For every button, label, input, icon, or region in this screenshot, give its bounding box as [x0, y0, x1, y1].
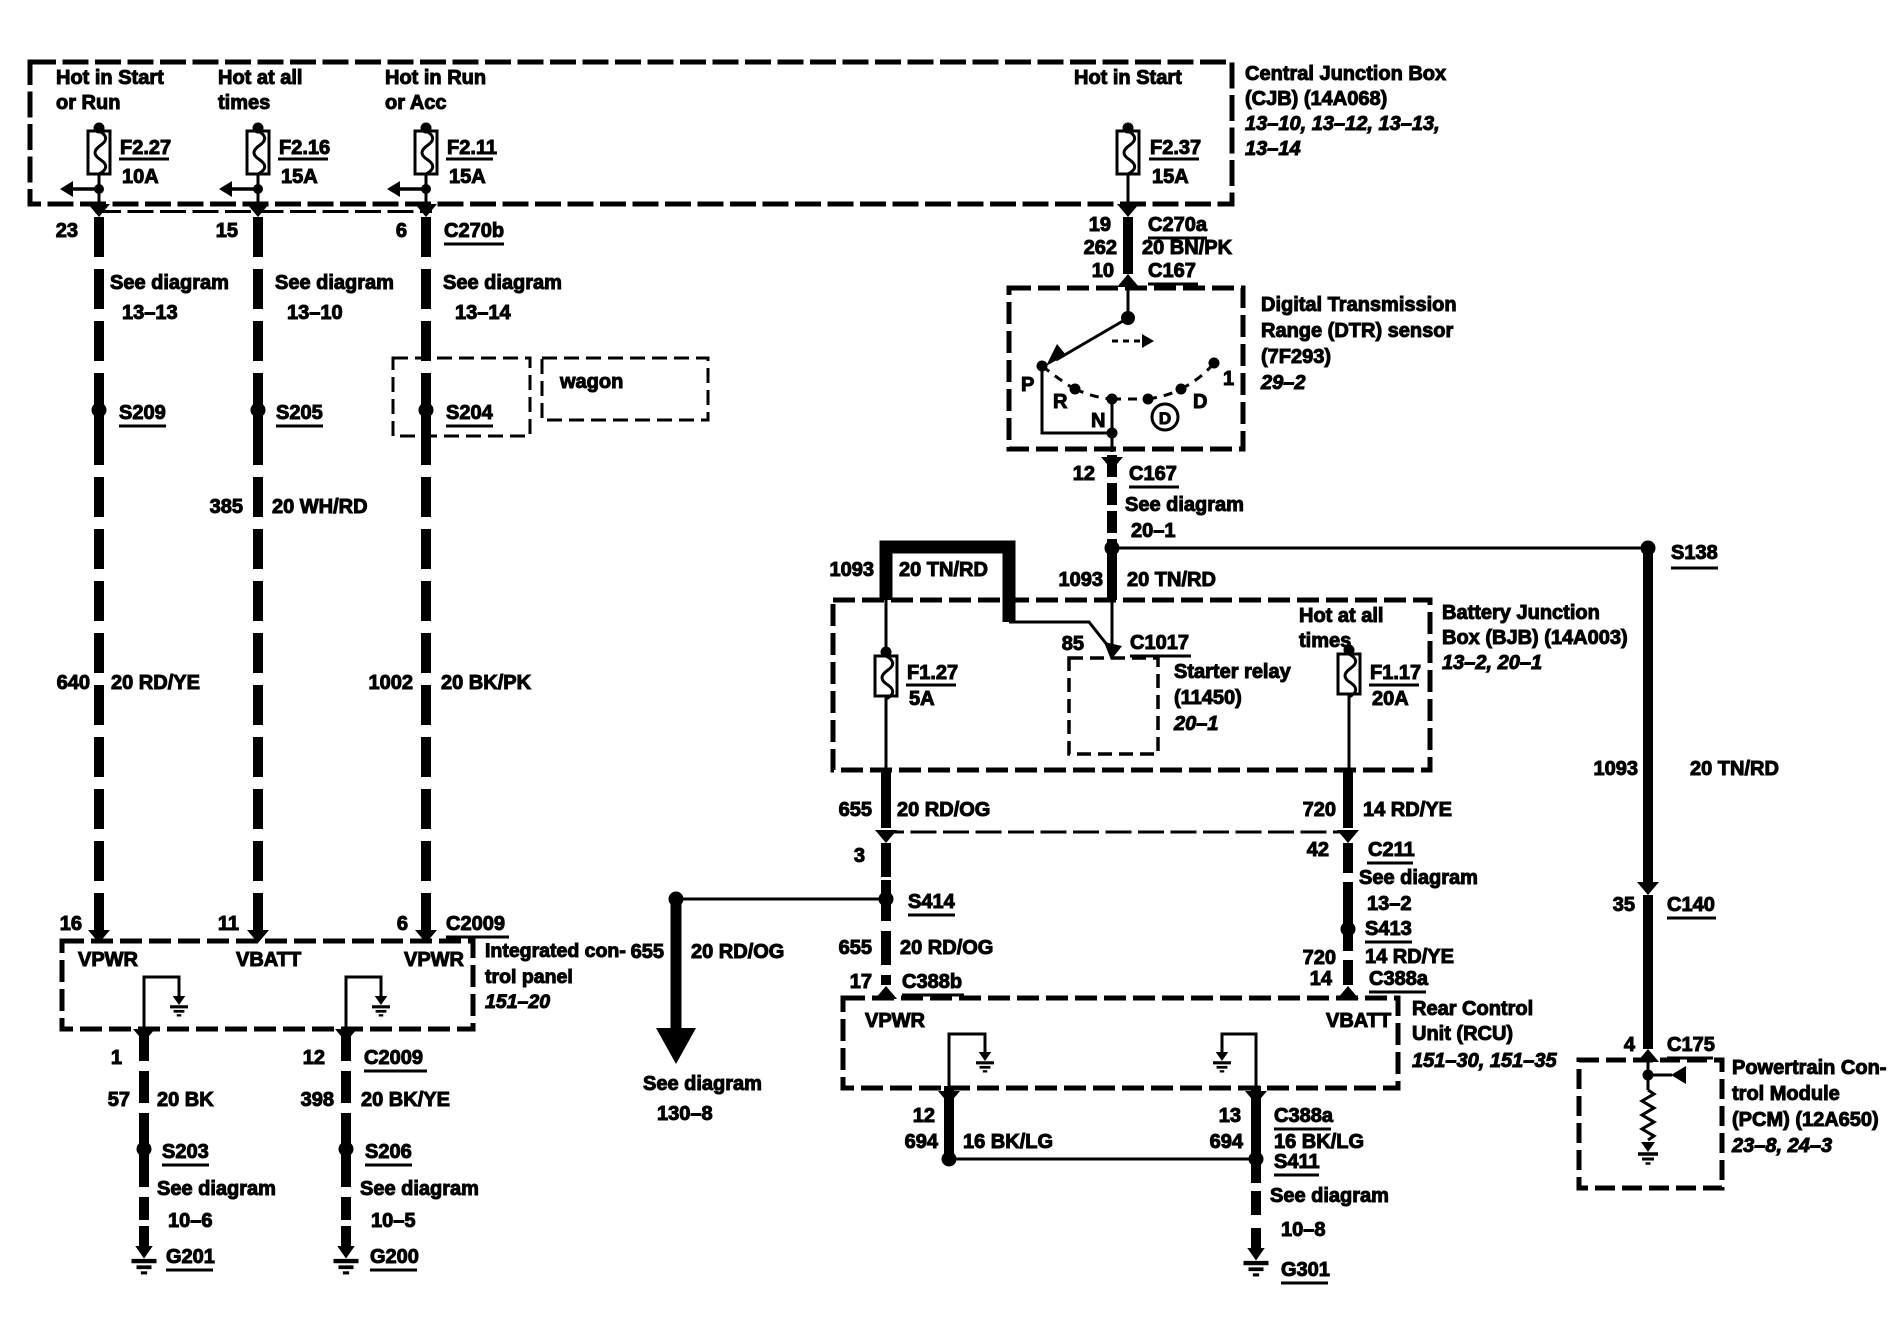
svg-text:694: 694	[905, 1131, 939, 1153]
svg-text:13–13: 13–13	[122, 302, 178, 324]
wire 655 below C211	[881, 843, 891, 985]
svg-text:15A: 15A	[281, 166, 318, 188]
svg-text:1: 1	[1223, 368, 1234, 390]
svg-text:1093: 1093	[1594, 758, 1639, 780]
svg-text:Hot at all: Hot at all	[1299, 605, 1383, 627]
svg-text:times: times	[218, 92, 270, 114]
see diagram 13-10 note	[275, 272, 394, 324]
wire label 655 20 RD/OG	[839, 799, 991, 821]
DTR name label	[1260, 294, 1457, 394]
see diagram 130-8 note	[643, 1073, 762, 1125]
see diagram 10-6 note	[157, 1178, 276, 1232]
connector C140 pin 35	[1613, 882, 1716, 918]
svg-text:20 BK: 20 BK	[157, 1089, 214, 1111]
svg-text:Rear Control: Rear Control	[1412, 998, 1533, 1020]
svg-text:13–10, 13–12, 13–13,: 13–10, 13–12, 13–13,	[1245, 113, 1440, 135]
svg-text:151–30, 151–35: 151–30, 151–35	[1412, 1050, 1557, 1072]
N output wire	[1107, 399, 1118, 452]
pin 15	[216, 220, 238, 242]
svg-text:N: N	[1091, 410, 1105, 432]
wire 694 16 BK/LG (left)	[944, 1086, 954, 1159]
BJB name label	[1442, 602, 1628, 674]
svg-text:(CJB) (14A068): (CJB) (14A068)	[1245, 88, 1387, 110]
svg-text:G200: G200	[370, 1246, 419, 1268]
svg-text:4: 4	[1624, 1034, 1636, 1056]
wire to G301	[1251, 1159, 1261, 1249]
circled D indicator	[1152, 404, 1178, 430]
pin 42 / connector C211	[1307, 830, 1415, 863]
svg-text:20–1: 20–1	[1131, 520, 1176, 542]
pin row above ICP	[60, 913, 408, 935]
svg-text:20 RD/OG: 20 RD/OG	[900, 937, 993, 959]
svg-text:15: 15	[216, 220, 238, 242]
wire label 398 20 BK/YE	[301, 1089, 450, 1111]
wagon dashed box	[542, 358, 708, 420]
pin 6	[396, 220, 407, 242]
label: Hot in Start or Run	[56, 67, 164, 114]
svg-text:Integrated con-: Integrated con-	[485, 940, 626, 962]
wire 694 16 BK/LG (right)	[1251, 1086, 1261, 1159]
svg-text:13–2: 13–2	[1367, 893, 1412, 915]
connector C388a pin 14	[1310, 968, 1429, 999]
svg-text:13: 13	[1219, 1105, 1241, 1127]
PCM internal resistance to ground	[1642, 1090, 1654, 1140]
P to N jumper wire	[1042, 366, 1112, 433]
svg-text:Box (BJB) (14A003): Box (BJB) (14A003)	[1442, 627, 1628, 649]
svg-text:13–2, 20–1: 13–2, 20–1	[1442, 652, 1542, 674]
svg-text:VPWR: VPWR	[78, 949, 139, 971]
svg-text:3: 3	[854, 845, 865, 867]
wire label 655 20 RD/OG (branch)	[631, 941, 785, 963]
svg-text:S413: S413	[1365, 918, 1412, 940]
svg-text:13–10: 13–10	[287, 302, 343, 324]
connector C167 pin 10	[1092, 260, 1198, 284]
wire continues to C175	[1643, 895, 1653, 1049]
svg-text:C388a: C388a	[1369, 968, 1429, 990]
connector C270b label	[444, 220, 504, 244]
see diagram 20-1 note	[1125, 494, 1244, 542]
svg-text:Hot in Start: Hot in Start	[56, 67, 164, 89]
wire circuit 640 20 RD/YE (F2.27 output)	[94, 217, 104, 940]
svg-text:Starter relay: Starter relay	[1174, 661, 1292, 683]
svg-text:10–6: 10–6	[168, 1210, 213, 1232]
svg-text:C167: C167	[1129, 463, 1177, 485]
svg-text:20 BK/YE: 20 BK/YE	[361, 1089, 450, 1111]
pin 3	[854, 845, 865, 867]
splice S138	[1641, 541, 1719, 569]
svg-text:G201: G201	[166, 1246, 215, 1268]
svg-text:13–14: 13–14	[1245, 138, 1301, 160]
svg-text:20 BK/PK: 20 BK/PK	[441, 672, 532, 694]
splice S203	[137, 1132, 210, 1168]
svg-text:655: 655	[839, 937, 872, 959]
svg-text:times: times	[1299, 630, 1351, 652]
svg-text:C388a: C388a	[1274, 1105, 1334, 1127]
PCM name label	[1731, 1057, 1886, 1157]
svg-text:29–2: 29–2	[1260, 372, 1306, 394]
svg-text:6: 6	[397, 913, 408, 935]
fuse F2.16 15A	[219, 123, 330, 205]
svg-text:20A: 20A	[1372, 688, 1409, 710]
svg-text:VBATT: VBATT	[236, 949, 301, 971]
svg-text:C211: C211	[1368, 839, 1415, 861]
svg-text:Unit (RCU): Unit (RCU)	[1412, 1023, 1513, 1045]
svg-text:20 RD/OG: 20 RD/OG	[897, 799, 990, 821]
fuse F2.37 15A	[1117, 123, 1201, 205]
svg-text:C2009: C2009	[364, 1047, 423, 1069]
see diagram 13-14 note	[443, 272, 562, 324]
ground G200	[334, 1246, 419, 1273]
Powertrain Control Module dashed box	[1579, 1060, 1722, 1188]
node to S414 horizontal wire	[669, 892, 887, 907]
wire label 640 20 RD/YE	[57, 672, 200, 694]
starter relay label	[1173, 661, 1292, 735]
connector C270b line	[95, 210, 432, 213]
label: Hot at all times	[218, 67, 302, 114]
connector C2009 label (top)	[446, 913, 509, 937]
svg-text:See diagram: See diagram	[275, 272, 394, 294]
svg-text:Hot in Start: Hot in Start	[1074, 67, 1182, 89]
svg-text:S411: S411	[1274, 1151, 1320, 1173]
DTR wiper arm	[1046, 318, 1128, 366]
svg-text:S204: S204	[446, 402, 494, 424]
svg-text:C270a: C270a	[1148, 214, 1208, 236]
DTR input node	[1121, 311, 1135, 325]
svg-text:262: 262	[1084, 237, 1117, 259]
svg-text:23: 23	[56, 220, 78, 242]
wire branch 655 20 RD/OG to A	[671, 899, 682, 1028]
VPWR pin (right)	[404, 949, 465, 971]
svg-text:20 TN/RD: 20 TN/RD	[1690, 758, 1779, 780]
DTR rotation direction arrow	[1112, 334, 1154, 348]
svg-text:S414: S414	[908, 891, 956, 913]
svg-text:1093: 1093	[1059, 569, 1104, 591]
svg-text:720: 720	[1303, 799, 1336, 821]
svg-text:16 BK/LG: 16 BK/LG	[963, 1131, 1053, 1153]
wire label 1002 20 BK/PK	[369, 672, 532, 694]
wire 720 below C211	[1343, 843, 1353, 985]
svg-text:1: 1	[111, 1047, 122, 1069]
svg-text:trol panel: trol panel	[485, 966, 573, 988]
svg-text:S203: S203	[162, 1141, 209, 1163]
svg-text:See diagram: See diagram	[1359, 867, 1478, 889]
svg-text:14: 14	[1310, 968, 1333, 990]
see diagram 13-2 note	[1359, 867, 1478, 915]
splice S205	[251, 392, 324, 430]
wire circuit 398 20 BK/YE	[341, 1029, 351, 1247]
svg-text:See diagram: See diagram	[1270, 1185, 1389, 1207]
see diagram 10-5 note	[360, 1178, 479, 1232]
ground G201	[132, 1246, 215, 1273]
svg-text:See diagram: See diagram	[360, 1178, 479, 1200]
svg-text:See diagram: See diagram	[110, 272, 229, 294]
svg-text:5A: 5A	[909, 688, 935, 710]
svg-text:F2.37: F2.37	[1150, 137, 1201, 159]
connector C1017 pin 85 arrow	[1062, 632, 1191, 660]
terminal arc (P R N D 1 contacts)	[1042, 358, 1220, 405]
svg-text:D: D	[1193, 391, 1207, 413]
svg-text:20 TN/RD: 20 TN/RD	[1127, 569, 1216, 591]
splice S206	[339, 1132, 413, 1168]
svg-text:VBATT: VBATT	[1326, 1010, 1391, 1032]
see diagram 10-8 note	[1270, 1185, 1389, 1241]
svg-text:C140: C140	[1667, 894, 1715, 916]
pin 23	[56, 220, 78, 242]
svg-text:23–8, 24–3: 23–8, 24–3	[1731, 1135, 1832, 1157]
svg-text:130–8: 130–8	[657, 1103, 713, 1125]
terminal N label	[1091, 410, 1105, 432]
svg-text:11: 11	[218, 913, 239, 935]
wire circuit 1002 20 BK/PK (F2.11 output)	[421, 217, 431, 940]
terminal D label	[1193, 391, 1207, 413]
splice S204 dashed box	[393, 358, 530, 436]
Rear Control Unit dashed box	[843, 998, 1398, 1088]
wire 1093 continues into BJB	[1107, 548, 1117, 600]
wire label 1093 20 TN/RD (center)	[1059, 569, 1216, 591]
wire label 1093 20 TN/RD (right)	[1594, 758, 1779, 780]
svg-text:See diagram: See diagram	[443, 272, 562, 294]
svg-text:Hot at all: Hot at all	[218, 67, 302, 89]
pins 1 / 12 and C2009 below ICP	[111, 1047, 325, 1069]
connector pin arrows under CJB	[88, 204, 1139, 217]
pins 12 / 13 and C388a below RCU	[938, 1091, 1267, 1104]
svg-text:F1.17: F1.17	[1370, 662, 1421, 684]
svg-text:Range (DTR) sensor: Range (DTR) sensor	[1261, 320, 1453, 342]
svg-text:20 RD/YE: 20 RD/YE	[111, 672, 200, 694]
Digital Transmission Range sensor dashed box	[1009, 288, 1243, 449]
wire circuit 57 20 BK	[139, 1029, 149, 1247]
svg-text:655: 655	[839, 799, 872, 821]
svg-text:C167: C167	[1148, 260, 1196, 282]
Integrated control panel dashed box	[62, 941, 473, 1029]
svg-text:Digital Transmission: Digital Transmission	[1261, 294, 1457, 316]
splice S414	[879, 880, 956, 920]
svg-text:85: 85	[1062, 633, 1084, 655]
svg-text:C2009: C2009	[446, 913, 505, 935]
splice node to S138	[1105, 541, 1649, 556]
svg-text:17: 17	[850, 971, 872, 993]
label: Hot at all times (BJB)	[1299, 605, 1383, 652]
ICP internal ground (right)	[346, 977, 390, 1029]
VBATT pin (RCU)	[1326, 1010, 1391, 1032]
wire label 385 20 WH/RD	[210, 496, 368, 518]
label: Hot in Run or Acc	[385, 67, 486, 114]
wire 655 20 RD/OG	[881, 770, 891, 828]
splice S204	[419, 392, 494, 430]
fuse F1.17 20A	[1338, 645, 1421, 771]
ground G301	[1244, 1248, 1330, 1283]
svg-text:S206: S206	[365, 1141, 412, 1163]
svg-text:G301: G301	[1281, 1259, 1330, 1281]
wire label 57 20 BK	[108, 1089, 214, 1111]
ICP internal ground (left)	[144, 977, 188, 1029]
wire label 694 16 BK/LG (left)	[905, 1131, 1053, 1153]
off-page arrow A	[656, 1028, 696, 1064]
VBATT pin	[236, 949, 301, 971]
RCU internal ground (right)	[1213, 1034, 1256, 1086]
starter relay dashed box	[1069, 658, 1158, 754]
svg-text:trol Module: trol Module	[1732, 1083, 1840, 1105]
svg-text:10A: 10A	[122, 166, 159, 188]
fuse F2.27 10A	[60, 123, 171, 205]
svg-text:20 RD/OG: 20 RD/OG	[691, 941, 784, 963]
connector C167 pin 12	[1073, 457, 1179, 487]
svg-text:See diagram: See diagram	[157, 1178, 276, 1200]
svg-text:12: 12	[1073, 463, 1095, 485]
svg-text:6: 6	[396, 220, 407, 242]
svg-text:Hot in Run: Hot in Run	[385, 67, 486, 89]
RCU internal ground (left)	[949, 1034, 994, 1086]
wire label 694 16 BK/LG (right)	[1210, 1131, 1364, 1153]
svg-text:20 BN/PK: 20 BN/PK	[1142, 237, 1233, 259]
connector arrows into ICP	[88, 930, 437, 943]
svg-text:12: 12	[303, 1047, 325, 1069]
svg-text:R: R	[1053, 391, 1068, 413]
svg-text:13–14: 13–14	[455, 302, 511, 324]
svg-text:A: A	[669, 1032, 683, 1053]
wire 720 14 RD/YE	[1343, 770, 1353, 828]
VPWR pin	[78, 949, 139, 971]
svg-text:(11450): (11450)	[1174, 687, 1242, 709]
svg-text:C175: C175	[1667, 1034, 1715, 1056]
wire label 655 20 RD/OG (2)	[839, 937, 994, 959]
svg-text:VPWR: VPWR	[404, 949, 465, 971]
wire from 1093 node to relay	[1111, 600, 1114, 650]
svg-text:or Acc: or Acc	[385, 92, 447, 114]
terminal P	[1021, 361, 1048, 397]
svg-text:19: 19	[1089, 214, 1111, 236]
svg-text:(7F293): (7F293)	[1261, 346, 1331, 368]
svg-text:C388b: C388b	[902, 971, 962, 993]
svg-text:VPWR: VPWR	[865, 1010, 926, 1032]
fuse F1.27 5A	[875, 600, 958, 770]
connector C175 pin 4	[1624, 1034, 1715, 1062]
ICP name label	[485, 940, 626, 1013]
svg-text:F2.11: F2.11	[447, 137, 497, 159]
svg-text:720: 720	[1303, 947, 1336, 969]
svg-text:Powertrain Con-: Powertrain Con-	[1732, 1057, 1886, 1079]
svg-text:20 WH/RD: 20 WH/RD	[272, 496, 368, 518]
wire circuit 385 20 WH/RD (F2.16 output)	[253, 217, 263, 940]
VPWR pin (RCU)	[865, 1010, 926, 1032]
svg-text:16 BK/LG: 16 BK/LG	[1274, 1131, 1364, 1153]
svg-text:10–5: 10–5	[371, 1210, 416, 1232]
wire label 1093 20 TN/RD (left)	[830, 559, 988, 581]
svg-text:12: 12	[913, 1105, 935, 1127]
connector C211 line	[875, 830, 1350, 843]
wire 1093 20 TN/RD to PCM	[1643, 548, 1653, 884]
svg-text:P: P	[1021, 374, 1034, 396]
svg-text:See diagram: See diagram	[1125, 494, 1244, 516]
wire label 720 14 RD/YE (2)	[1303, 946, 1454, 969]
svg-text:14 RD/YE: 14 RD/YE	[1363, 799, 1452, 821]
wire label 262 20 BN/PK	[1084, 237, 1233, 259]
svg-text:(PCM) (12A650): (PCM) (12A650)	[1732, 1109, 1879, 1131]
see diagram 13-13 note	[110, 272, 229, 324]
splice S209	[92, 392, 167, 430]
wire label 720 14 RD/YE	[1303, 799, 1452, 821]
svg-text:14 RD/YE: 14 RD/YE	[1365, 946, 1454, 968]
svg-text:16: 16	[60, 913, 82, 935]
svg-text:See diagram: See diagram	[643, 1073, 762, 1095]
splice S411 and tie wire	[942, 1151, 1320, 1175]
Central Junction Box (CJB) dashed enclosure	[30, 62, 1232, 204]
svg-text:151–20: 151–20	[485, 991, 550, 1013]
label: Hot in Start (right)	[1074, 67, 1182, 89]
wire from loop to starter relay coil	[1009, 622, 1108, 646]
wire 1093 20 TN/RD loop to F1.27	[886, 547, 1009, 622]
svg-text:D: D	[1159, 409, 1171, 428]
terminal 1 label	[1223, 368, 1234, 390]
RCU name label	[1412, 998, 1557, 1072]
terminal R label	[1053, 391, 1068, 413]
PCM internal node	[1643, 1060, 1654, 1090]
fuse F2.11 15A	[387, 123, 497, 205]
svg-text:F2.27: F2.27	[120, 137, 171, 159]
svg-text:1002: 1002	[369, 672, 414, 694]
svg-text:15A: 15A	[449, 166, 486, 188]
svg-text:20 TN/RD: 20 TN/RD	[899, 559, 988, 581]
svg-text:Central Junction Box: Central Junction Box	[1245, 63, 1446, 85]
svg-text:S205: S205	[276, 402, 323, 424]
svg-text:15A: 15A	[1152, 166, 1189, 188]
svg-text:10–8: 10–8	[1281, 1219, 1326, 1241]
connector C388b pin 17	[850, 971, 964, 999]
svg-text:398: 398	[301, 1089, 334, 1111]
svg-text:Battery Junction: Battery Junction	[1442, 602, 1600, 624]
wire 262 20 BN/PK	[1123, 217, 1133, 274]
svg-text:655: 655	[631, 941, 664, 963]
svg-text:42: 42	[1307, 839, 1329, 861]
svg-text:35: 35	[1613, 894, 1635, 916]
svg-text:wagon: wagon	[559, 371, 623, 393]
svg-text:10: 10	[1092, 260, 1114, 282]
svg-text:F2.16: F2.16	[279, 137, 330, 159]
connector C270a pin 19	[1089, 214, 1208, 238]
svg-text:or Run: or Run	[56, 92, 120, 114]
splice S413	[1341, 910, 1413, 950]
svg-text:640: 640	[57, 672, 90, 694]
svg-text:385: 385	[210, 496, 243, 518]
svg-text:694: 694	[1210, 1131, 1244, 1153]
svg-text:F1.27: F1.27	[907, 662, 958, 684]
svg-text:57: 57	[108, 1089, 130, 1111]
Battery Junction Box dashed enclosure	[833, 600, 1430, 770]
wire 1093 20 TN/RD from DTR	[1107, 455, 1117, 548]
svg-text:C1017: C1017	[1130, 632, 1189, 654]
svg-text:C270b: C270b	[444, 220, 504, 242]
svg-text:20–1: 20–1	[1173, 713, 1219, 735]
svg-text:S138: S138	[1671, 542, 1718, 564]
PCM internal ground	[1638, 1142, 1658, 1164]
svg-text:S209: S209	[119, 402, 166, 424]
svg-text:1093: 1093	[830, 559, 875, 581]
PCM internal signal tap	[1648, 1066, 1686, 1084]
CJB name label	[1245, 63, 1446, 160]
